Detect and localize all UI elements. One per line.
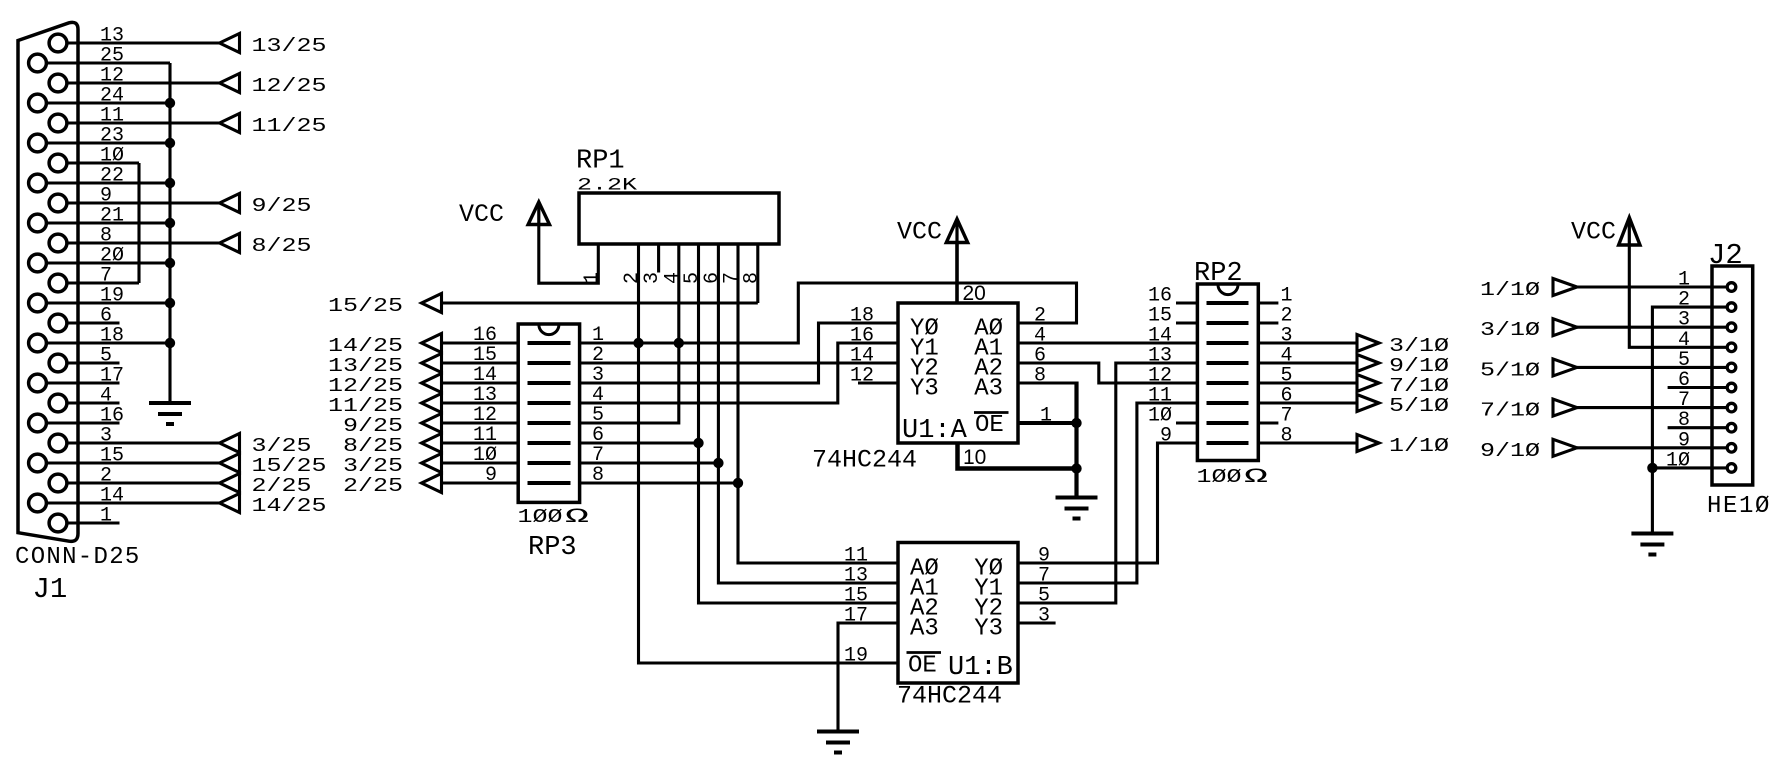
resistor pack RP2 body [1197,284,1258,461]
J1 pin 4 circle [49,394,67,412]
svg-text:13/25: 13/25 [252,34,327,57]
wire 11/25 to RP3 [440,401,518,404]
junction bus/pin 23 [165,138,175,148]
svg-text:CONN-D25: CONN-D25 [15,544,141,571]
svg-text:10: 10 [963,446,986,469]
wire U1:A A2 to RP2.12 [1018,363,1197,383]
wire bracket pins 10-7 [137,163,140,283]
wire J1 pin 16 [47,421,120,424]
node 12/25 arrow (RP3 side) [422,374,442,393]
wire 12/25 to RP3 [440,381,518,384]
wire RP3.7 [580,461,719,464]
svg-text:9/1Ø: 9/1Ø [1389,354,1449,377]
J1 pin 2 circle [49,474,67,492]
node 8/25 arrow (RP3 side) [422,434,442,453]
wire J2 pin 4 to VCC [1629,245,1726,347]
wire U1:A A1 to RP2.14 [1018,341,1197,344]
svg-text:3/25: 3/25 [252,434,312,457]
svg-text:11/25: 11/25 [252,114,327,137]
wire J1 pin 8 [67,241,219,244]
svg-text:14/25: 14/25 [328,334,403,357]
ground (U1:B) [817,730,859,734]
RP3 notch [539,325,559,335]
junction bus/pin 22 [165,178,175,188]
node 9/1Ø arrow (J2 side) [1553,439,1577,456]
svg-text:20: 20 [963,282,986,305]
J1 pin 20 circle [29,254,47,272]
J2 pin 1 circle [1727,283,1736,292]
wire J1 pin 4 [67,401,119,404]
svg-text:8: 8 [740,272,763,284]
J1 pin 12 circle [49,74,67,92]
J1 pin 1 circle [49,514,67,532]
wire node 5/1Ø to J2 pin 5 [1577,366,1726,369]
svg-text:13/25: 13/25 [328,354,403,377]
svg-text:7/1Ø: 7/1Ø [1389,374,1449,397]
svg-text:VCC: VCC [897,218,942,247]
J1 pin 19 circle [29,294,47,312]
svg-text:74HC244: 74HC244 [897,682,1002,711]
svg-text:VCC: VCC [459,200,504,229]
J2 pin 10 circle [1727,464,1736,473]
wire RP3.6 [580,441,699,444]
svg-text:12/25: 12/25 [328,374,403,397]
junction pin10/gnd [1071,463,1081,473]
wire node 9/1Ø to J2 pin 9 [1577,446,1726,449]
node 13/25 arrow (J1 side) [220,34,240,53]
wire J1 pin 2 [67,481,219,484]
wire RP3.8 [580,481,738,484]
node 9/1Ø arrow (RP2 side) [1357,355,1379,372]
svg-text:Y3: Y3 [910,376,939,403]
RP3 resistor bar 7 [528,461,571,465]
svg-text:1ØØ: 1ØØ [518,505,563,528]
svg-text:U1:B: U1:B [948,653,1013,683]
wire J1 pin 19 [47,301,170,304]
svg-text:J2: J2 [1708,239,1743,272]
ground (U1:A) [1056,496,1098,500]
power VCC arrow (U1:A) [946,219,967,243]
node 13/25 arrow (RP3 side) [422,354,442,373]
wire J1 pin 24 [47,101,170,104]
J1 pin 13 circle [49,34,67,52]
wire J1 pin 5 [67,361,119,364]
wire J1 pin 9 [67,201,219,204]
wire J1 pin 3 [67,441,219,444]
wire U1:A pin 10 [958,443,1077,469]
power VCC arrow (RP1) [528,202,549,225]
J1 pin 24 circle [29,94,47,112]
wire RP2.15 stub [1176,321,1197,324]
J1 pin 10 circle [49,154,67,172]
junction RP3.1/RP1.4 [674,338,684,348]
node 15/25 arrow (RP3 side) [422,294,442,313]
wire J1 pin 11 [67,121,219,124]
svg-text:VCC: VCC [1571,218,1616,247]
wire U1:B Y1 to RP2.11 [1018,403,1197,583]
junction RP3.8/RP1.7 [733,478,743,488]
wire node 7/1Ø to J2 pin 7 [1577,406,1726,409]
ground (J1 bus) [149,401,191,405]
J2 pin 9 circle [1727,444,1736,453]
J2 pin 6 circle [1727,383,1736,392]
junction RP3.7/RP1.6 [713,458,723,468]
connector J2 body (HE10) [1712,266,1753,485]
svg-text:1ØØ: 1ØØ [1197,465,1242,488]
wire J2 pin 10 [1652,466,1726,469]
J1 pin 15 circle [29,454,47,472]
svg-text:1: 1 [100,505,112,528]
svg-text:1/1Ø: 1/1Ø [1389,434,1449,457]
buffer U1:A body [898,303,1018,443]
connector J1 body (CONN-D25) [18,22,78,541]
J1 pin 17 circle [29,374,47,392]
J2 pin 2 circle [1727,303,1736,312]
wire U1:B Y0 to RP2.9 [1018,443,1197,563]
wire RP2.10 stub [1176,421,1197,424]
svg-text:2/25: 2/25 [343,474,403,497]
svg-text:J1: J1 [33,573,68,606]
J1 pin 22 circle [29,174,47,192]
wire 13/25 to RP3 [440,361,518,364]
svg-text:5/1Ø: 5/1Ø [1480,359,1540,382]
RP3 resistor bar 3 [528,381,571,385]
wire U1:A A3 [1018,381,1077,384]
svg-text:3/1Ø: 3/1Ø [1480,319,1540,342]
wire J1 pin 15 [47,461,220,464]
wire RP1 pin 1 to VCC [539,224,599,283]
svg-text:Ω: Ω [565,506,589,528]
node 8/25 arrow (J1 side) [220,234,240,253]
wire J2 pin 6 stub [1668,386,1726,389]
ground bus of J1 even pins [168,63,171,403]
svg-text:19: 19 [844,645,868,668]
node 3/25 arrow (J1 side) [220,434,240,453]
wire J1 pin 7 [67,281,139,284]
svg-text:2/25: 2/25 [252,474,312,497]
wire J1 pin 1 [67,521,119,524]
J1 pin 21 circle [29,214,47,232]
J2 pin 5 circle [1727,363,1736,372]
svg-text:15/25: 15/25 [252,454,327,477]
svg-text:2.2K: 2.2K [577,174,638,195]
J2 pin 4 circle [1727,343,1736,352]
node 5/1Ø arrow (RP2 side) [1357,395,1379,412]
wire RP1 pin 3 stub [657,244,660,273]
J1 pin 9 circle [49,194,67,212]
svg-text:8/25: 8/25 [252,234,312,257]
junction OE/A3 [1071,418,1081,428]
junction bus/pin 24 [165,98,175,108]
svg-text:A3: A3 [974,376,1003,403]
wire RP2 to node 7/1Ø [1258,381,1357,384]
ground (J2) [1631,532,1673,536]
wire RP3.4 to U1:A Y1 [580,343,898,403]
wire J1 pin 20 [47,261,170,264]
svg-text:HE1Ø: HE1Ø [1707,493,1771,520]
wire RP2.7 stub [1258,421,1278,424]
svg-text:12/25: 12/25 [252,74,327,97]
wire J1 pin 23 [47,141,170,144]
wire 2/25 to RP3 [440,481,518,484]
svg-text:9: 9 [485,464,497,487]
wire J1 pin 13 [67,41,219,44]
svg-text:RP1: RP1 [576,147,625,177]
svg-text:9/25: 9/25 [252,194,312,217]
svg-text:74HC244: 74HC244 [812,446,917,475]
J2 pin 3 circle [1727,323,1736,332]
svg-text:1: 1 [581,272,604,284]
svg-text:OE: OE [908,653,937,680]
junction J2 pin10/gnd [1647,463,1657,473]
svg-text:9/25: 9/25 [343,414,403,437]
J1 pin 8 circle [49,234,67,252]
wire 3/25 to RP3 [440,461,518,464]
wire U1:A OE pin 1 [1018,421,1077,425]
wire RP3.5 to RP1.4 [580,244,679,423]
RP2 resistor bar 8 [1207,441,1249,445]
junction bus/pin 21 [165,218,175,228]
wire RP1 pin 5 to U1:B A2 [699,244,899,603]
wire RP3.3 to U1:A Y0 [580,323,898,383]
wire RP2 to node 5/1Ø [1258,401,1357,404]
wire J1 pin 22 [47,181,170,184]
J1 pin 25 circle [29,54,47,72]
RP3 resistor bar 8 [528,481,571,485]
wire U1:A Y3 stub [858,381,898,384]
wire 15/25 to RP1 pin 8 [440,301,758,304]
J1 pin 3 circle [49,434,67,452]
node 1/1Ø arrow (J2 side) [1553,279,1577,296]
junction bus/pin 18 [165,338,175,348]
J2 pin 7 circle [1727,403,1736,412]
wire J1 pin 12 [67,81,219,84]
J1 pin 6 circle [49,314,67,332]
wire A3/OE to ground [1074,382,1078,498]
node 5/1Ø arrow (J2 side) [1553,359,1577,376]
wire J1 pin 14 [47,501,220,504]
svg-text:A3: A3 [910,616,939,643]
svg-text:RP2: RP2 [1194,259,1243,289]
RP3 resistor bar 4 [528,401,571,405]
node 12/25 arrow (J1 side) [220,74,240,93]
svg-text:9/1Ø: 9/1Ø [1480,439,1540,462]
wire RP1 pin 6 to U1:B A1 [718,244,898,583]
wire RP1 pin 7 to U1:B A0 [738,244,898,563]
wire 14/25 to RP3 [440,341,518,344]
svg-text:14/25: 14/25 [252,494,327,517]
node 7/1Ø arrow (J2 side) [1553,399,1577,416]
resistor pack RP1 body [579,193,779,244]
node 9/25 arrow (RP3 side) [422,414,442,433]
RP2 resistor bar 5 [1207,381,1249,385]
wire U1:A pin 20 VCC [955,243,959,304]
junction bus/pin 19 [165,298,175,308]
wire J1 pin 18 [47,341,170,344]
svg-text:11/25: 11/25 [328,394,403,417]
wire J1 pin 10 [67,161,139,164]
node 11/25 arrow (J1 side) [220,114,240,133]
svg-text:8/25: 8/25 [343,434,403,457]
node 14/25 arrow (J1 side) [220,494,240,513]
J1 pin 7 circle [49,274,67,292]
power VCC arrow (J2) [1619,218,1640,246]
wire U1:B Y3 stub [1018,621,1056,624]
node 3/25 arrow (RP3 side) [422,454,442,473]
J1 pin 14 circle [29,494,47,512]
RP2 notch [1218,285,1238,295]
RP3 resistor bar 6 [528,441,571,445]
svg-text:3/1Ø: 3/1Ø [1389,334,1449,357]
J1 pin 5 circle [49,354,67,372]
node 3/1Ø arrow (J2 side) [1553,319,1577,336]
node 11/25 arrow (RP3 side) [422,394,442,413]
J1 pin 11 circle [49,114,67,132]
node 2/25 arrow (RP3 side) [422,474,442,493]
svg-text:5/1Ø: 5/1Ø [1389,394,1449,417]
svg-text:9: 9 [1160,425,1172,448]
wire J1 pin 21 [47,221,170,224]
RP3 resistor bar 1 [528,341,571,345]
svg-text:Y3: Y3 [974,616,1003,643]
wire node 3/1Ø to J2 pin 3 [1577,326,1726,329]
node 2/25 arrow (J1 side) [220,474,240,493]
wire RP1 pin 8 to 15/25 [756,244,759,303]
resistor pack RP3 body [518,324,579,502]
wire RP1 pin 2 to U1:B OE [639,244,899,663]
J1 pin 23 circle [29,134,47,152]
wire RP2 to node 3/1Ø [1258,341,1357,344]
wire J1 pin 25 [47,61,170,64]
J1 pin 18 circle [29,334,47,352]
wire J1 pin 6 [67,321,119,324]
node 14/25 arrow (RP3 side) [422,334,442,353]
buffer U1:B body [898,543,1018,684]
wire RP3.1 net [580,283,1077,343]
RP3 resistor bar 2 [528,361,571,365]
wire RP3.2 to U1:A Y2 [580,361,898,364]
wire J1 pin 17 [47,381,120,384]
svg-text:1/1Ø: 1/1Ø [1480,278,1540,301]
junction RP3.1/RP1.2 [633,338,643,348]
J1 pin 16 circle [29,414,47,432]
svg-text:OE: OE [975,412,1004,439]
wire U1:B Y2 to RP2.13 [1018,363,1197,603]
node 3/1Ø arrow (RP2 side) [1357,335,1379,352]
J2 pin 8 circle [1727,423,1736,432]
junction bus/pin 20 [165,258,175,268]
RP2 resistor bar 2 [1207,321,1249,325]
wire node 1/1Ø to J2 pin 1 [1577,285,1726,288]
wire RP2.1 stub [1258,301,1278,304]
junction RP3.6/RP1.5 [693,438,703,448]
wire RP2.16 stub [1176,301,1197,304]
wire 8/25 to RP3 [440,441,518,444]
wire RP2.2 stub [1258,321,1278,324]
RP2 resistor bar 4 [1207,361,1249,365]
RP2 resistor bar 3 [1207,341,1249,345]
RP2 resistor bar 6 [1207,401,1249,405]
RP2 resistor bar 1 [1207,301,1249,305]
node 1/1Ø arrow (RP2 side) [1357,435,1379,452]
wire 9/25 to RP3 [440,421,518,424]
wire U1:B A3 to ground [838,623,898,732]
svg-text:7/1Ø: 7/1Ø [1480,399,1540,422]
node 9/25 arrow (J1 side) [220,194,240,213]
wire J2 pin 2 to ground [1652,307,1726,533]
node 15/25 arrow (J1 side) [220,454,240,473]
wire RP2 to node 1/1Ø [1258,441,1357,444]
svg-text:15/25: 15/25 [328,294,403,317]
wire J2 pin 8 stub [1668,426,1726,429]
svg-text:3/25: 3/25 [343,454,403,477]
node 7/1Ø arrow (RP2 side) [1357,375,1379,392]
svg-text:U1:A: U1:A [902,416,968,446]
RP3 resistor bar 5 [528,421,571,425]
wire RP2 to node 9/1Ø [1258,361,1357,364]
svg-text:RP3: RP3 [528,533,577,563]
svg-text:Ω: Ω [1244,466,1268,488]
RP2 resistor bar 7 [1207,421,1249,425]
